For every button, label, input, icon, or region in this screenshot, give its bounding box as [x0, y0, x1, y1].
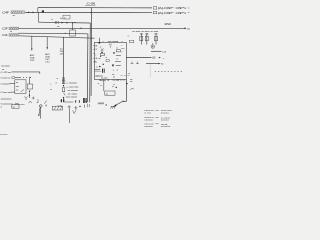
arrow lower 160 [159, 57, 161, 59]
V3 relay box [62, 81, 65, 84]
arrow terminal lower [159, 63, 161, 65]
chain dot [29, 95, 30, 96]
wire row 4 [11, 91, 15, 93]
svg-text:xxXxx x: xxXxx x [101, 80, 106, 82]
interior bus line [95, 70, 101, 72]
wire H-D long feed [19, 27, 185, 29]
fuse T1 drop left [31, 36, 33, 50]
legend row 2 left [144, 117, 154, 121]
bottom-left faint rule [0, 134, 8, 136]
corner x mark [123, 100, 125, 102]
small connector box right of corner [129, 40, 133, 43]
x mark [45, 105, 47, 107]
fuse F3 [155, 36, 158, 41]
interior dash o7 [121, 48, 125, 50]
junction box J/B [95, 42, 127, 79]
wire 160 feed [126, 57, 151, 59]
junction on H-D [80, 28, 81, 29]
connector label (A)-C6P upper [153, 7, 189, 11]
S curve arrow [38, 114, 40, 116]
svg-text:xx: xx [98, 83, 100, 85]
svg-text:+ xxxx: + xxxx [66, 82, 78, 84]
connector tag box above H-F [63, 15, 70, 19]
bottom-left tag box [12, 105, 19, 108]
faint dashed branch line [149, 65, 151, 78]
wire row 3 [10, 82, 15, 84]
ground symbol [111, 106, 116, 108]
wire drop from H-F [72, 23, 74, 30]
legend row 1 dash [155, 109, 158, 111]
fusible link FL3 [9, 34, 19, 37]
fuse T1 label block [30, 54, 36, 62]
connector circle on H-F [55, 21, 57, 23]
interior rect o2 [106, 60, 109, 62]
fuse T2 label block [45, 53, 51, 64]
junction blob on bus B [42, 10, 44, 12]
V4 corner wire [122, 101, 126, 103]
svg-text:C6P°x: C6P°x [176, 12, 188, 15]
wire top bus B [25, 11, 152, 13]
fusible link FL1 [11, 11, 25, 17]
legend row 2 dash [155, 116, 158, 118]
ground marks left of 160 [131, 62, 139, 64]
interior arrow [99, 66, 101, 68]
dark tick b [78, 100, 81, 103]
interior pin dash column [110, 44, 111, 48]
svg-text:xxx: xxx [130, 81, 133, 83]
row 6 marks [29, 101, 32, 103]
dark pin cluster [83, 98, 86, 103]
svg-text:xx: xx [112, 86, 114, 88]
wire riser joining bus A and B [37, 8, 39, 13]
interior rect B [116, 50, 120, 52]
fuse T2 drop left [46, 37, 48, 50]
wire V3 drop [63, 37, 65, 84]
svg-text:+ xx xx: + xx xx [66, 87, 79, 89]
diag mark [44, 100, 47, 103]
V glyph [73, 110, 76, 113]
row 2 trail dots [23, 77, 31, 78]
svg-text:C-06: C-06 [87, 1, 97, 5]
S curve wire [39, 107, 41, 113]
svg-text:xxxxxx: xxxxxx [144, 119, 153, 121]
svg-text:xxxxx: xxxxx [161, 112, 169, 114]
dark tick a [74, 100, 77, 103]
chain box [27, 84, 32, 89]
svg-text:xxx: xxx [98, 58, 100, 60]
legend row 1 left [144, 110, 154, 114]
wire vertical bus V1 [86, 34, 89, 103]
chain right of relay: tick [29, 78, 31, 84]
junction dot below box [116, 87, 117, 88]
V3 side label [60, 49, 64, 56]
junction box top pins [103, 41, 122, 42]
battery symbol [151, 43, 154, 48]
plus glyph [32, 97, 35, 100]
svg-text:xx xxx: xx xxx [1, 65, 10, 67]
wire V4 from box [126, 80, 128, 102]
svg-text:xxxxxx: xxxxxx [161, 126, 171, 128]
row 2 glyph [12, 77, 15, 79]
svg-text:(A)-C6P°: (A)-C6P° [158, 12, 174, 15]
fuse T2 arrow [46, 47, 48, 49]
arrow pair on H-F [62, 22, 64, 24]
svg-text:C3F: C3F [2, 28, 9, 31]
svg-text:xxxxx: xxxxx [161, 120, 169, 122]
tick bottom [83, 105, 85, 108]
fuse F2 drop [146, 34, 148, 45]
wire H-E [19, 32, 88, 35]
wire H-C [19, 36, 95, 38]
relay box left [15, 80, 26, 94]
box left edge pins [93, 46, 94, 62]
junction on bus B [28, 12, 29, 13]
lower-left symbol cluster: hook [37, 99, 38, 102]
svg-text:x x x x x x x x x: x x x x x x x x x [155, 71, 183, 73]
fuse T1 arrow [31, 48, 33, 50]
wire H-F feed [38, 12, 40, 22]
wire arrow row lower [146, 63, 159, 65]
svg-text:x xxx: x xxx [67, 90, 78, 92]
svg-text:xxx: xxx [12, 107, 14, 109]
psi arrow [75, 106, 78, 110]
mark near ground [106, 104, 107, 105]
circle terminal [39, 105, 42, 108]
wire vertical bus V2b [89, 23, 92, 102]
wire row 1 [12, 72, 40, 74]
V3 arrow [63, 85, 65, 87]
wire row 2 [15, 77, 21, 79]
interior dark square [113, 52, 115, 53]
box bottom edge pins [100, 80, 119, 81]
legend row 3 dash [155, 123, 158, 125]
relay box interior contact [21, 90, 25, 92]
switch contact X [101, 49, 104, 52]
V3 terminal dark pair [61, 99, 64, 102]
V3 connector circle [62, 77, 64, 79]
V3 switch mark [64, 93, 66, 96]
Y glyph [24, 96, 27, 100]
svg-text:x xx: x xx [144, 112, 151, 114]
interior junction dot [103, 64, 104, 65]
V4 dot [126, 83, 127, 84]
wire vertical bus V2 [90, 8, 92, 96]
wire L-line [151, 50, 162, 52]
svg-text:xxx: xxx [16, 82, 18, 84]
arrow terminal of H-D [185, 27, 187, 29]
svg-text:x xx: x xx [67, 94, 77, 96]
svg-text:C6P°x: C6P°x [176, 7, 188, 10]
plus symbol bottom [68, 105, 71, 108]
svg-text:xxxx: xxxx [64, 101, 74, 103]
tick on H-F [58, 21, 60, 24]
svg-text:xxx: xxx [106, 93, 108, 95]
svg-text:x xx: x xx [57, 26, 60, 28]
svg-text:xxxx: xxxx [116, 65, 122, 67]
dot bottom [79, 106, 80, 107]
vertical drop x40 [40, 107, 42, 118]
interior dark blob I [112, 64, 114, 66]
svg-text:xxx: xxx [16, 89, 18, 91]
svg-text:C4F: C4F [2, 12, 10, 15]
V3 junction [63, 97, 64, 98]
svg-text:C1F: C1F [2, 34, 9, 37]
bus bottom tick [85, 100, 87, 102]
svg-text:x-xx x-xx x xx: x-xx x-xx x xx [132, 31, 161, 33]
interior rect A [100, 53, 104, 55]
ground G4 label [98, 102, 107, 104]
contact dark mark [101, 52, 103, 53]
interior dot o6 [100, 56, 101, 57]
junction V2 x bus B [91, 12, 92, 13]
junction on H-F [72, 22, 73, 23]
fuse F1 drop [140, 34, 142, 45]
connector box on drop [70, 30, 76, 36]
box bottom dashes [121, 74, 130, 76]
fuse F1 [140, 36, 143, 41]
legend row 3 right [161, 124, 171, 128]
V3 lower wire [63, 98, 65, 102]
legend row 2 right [161, 117, 170, 121]
wire top bus A [38, 7, 152, 9]
box interior left pin labels [95, 46, 98, 64]
legend row 3 left [144, 124, 154, 128]
chain arrow [29, 91, 31, 93]
svg-text:xx xxx: xx xxx [66, 96, 78, 98]
fuse F2 [145, 36, 148, 41]
fusible link FL2 [9, 27, 19, 33]
node C-06 title [85, 1, 96, 5]
hatched connector bottom [52, 106, 62, 110]
row 6 tag [15, 103, 25, 105]
interior dark pin pair [102, 69, 105, 73]
svg-text:L-16◦: L-16◦ [162, 51, 166, 53]
legend row 1 right [161, 110, 172, 114]
svg-text:xxxxxx: xxxxxx [144, 126, 153, 128]
svg-text:(A)-C6P°: (A)-C6P° [158, 7, 174, 10]
chain wire [29, 93, 31, 98]
arrow on bus B [33, 12, 35, 14]
svg-text:2x x: 2x x [60, 18, 63, 20]
box bottom drop wire [103, 80, 105, 92]
pin into junction box [99, 38, 101, 43]
diagonal to ground [114, 102, 123, 107]
diagonal arrowhead [114, 104, 117, 106]
crossing arc [131, 88, 134, 90]
box top pin blob [99, 42, 101, 44]
svg-text:xxxx: xxxx [16, 86, 19, 88]
marks bottom right [88, 104, 90, 108]
V3 resistor [62, 88, 65, 92]
long bottom drop [69, 108, 71, 123]
fuse F3 drop [155, 34, 157, 45]
svg-text:x x x: x x x [95, 75, 98, 77]
connector label (A)-C6P lower [153, 11, 189, 15]
small box below J/B [105, 91, 115, 95]
